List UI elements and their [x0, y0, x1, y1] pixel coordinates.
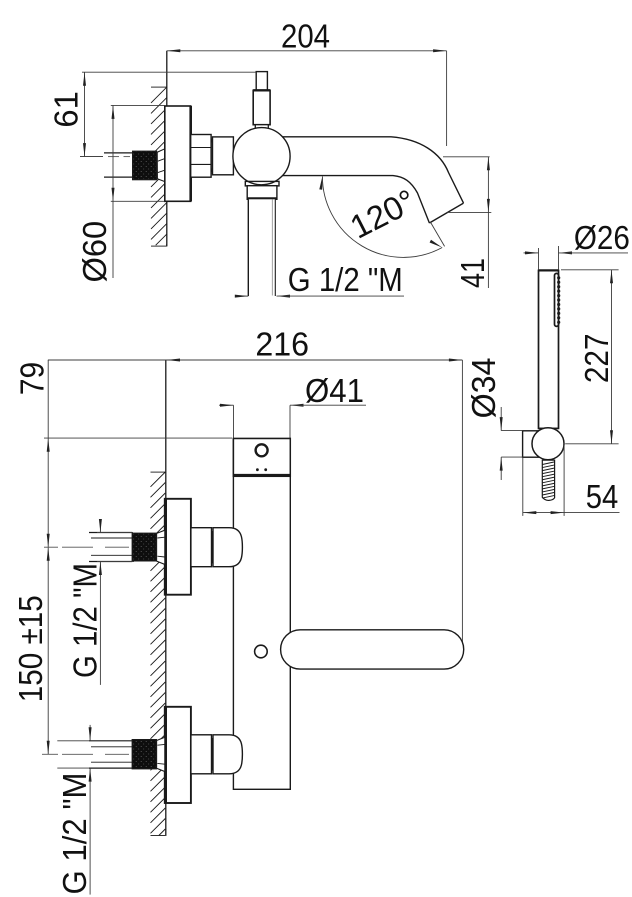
top neck thread lines: [158, 159, 165, 173]
svg-text:Ø34: Ø34: [465, 358, 502, 419]
bracket ball joint: [532, 428, 564, 460]
wall band top edge (top view): [151, 86, 167, 88]
mixer column body: [233, 439, 290, 790]
bottom outlet pipe G1/2: [248, 199, 275, 296]
dimension 41 (spout drop): [443, 156, 490, 158]
spray nozzle dots: [557, 276, 560, 279]
lower neck thread lines: [157, 744, 164, 764]
svg-text:Ø41: Ø41: [305, 372, 364, 409]
lower check-valve dome: [213, 735, 242, 774]
hex connector nut (top): [191, 135, 211, 178]
svg-text:227: 227: [578, 334, 615, 384]
hose connection thread (coil): [542, 460, 554, 500]
hand shower top cap line: [539, 269, 559, 271]
svg-text:G 1/2 "M: G 1/2 "M: [66, 563, 103, 678]
lower port centerline: [42, 753, 129, 755]
lower union flare: [157, 737, 165, 771]
upper neck thread lines: [157, 537, 164, 557]
dimension 54: [522, 458, 524, 516]
spray face strip: [555, 273, 559, 326]
svg-text:204: 204: [281, 18, 330, 55]
upper union flare: [157, 530, 165, 564]
small circle on column: [255, 645, 268, 658]
spout (wall-mounted, curved outlet): [282, 137, 464, 223]
upper check-valve dome: [213, 528, 242, 567]
flange right edge thick: [189, 106, 192, 201]
upper port centerline: [44, 546, 129, 548]
wall section hatch (front view): [151, 472, 166, 836]
temperature handle (capsule): [281, 630, 464, 669]
wall section hatch (top view): [151, 87, 167, 245]
svg-text:79: 79: [14, 362, 51, 395]
body tube left of ball: [213, 137, 234, 175]
column top cap with indicator: [233, 439, 290, 477]
label G 1/2 M (lower port): [57, 740, 89, 742]
dimension 61: [82, 71, 256, 73]
hand shower tube: [539, 270, 559, 428]
svg-text:54: 54: [586, 478, 619, 515]
lower flange (front view): [165, 707, 191, 803]
lower supply stub: [89, 740, 132, 742]
upper flange left edge thick: [164, 499, 167, 595]
dimension D26 (head): [538, 248, 540, 270]
dimension 216 (wall to handle tip): [48, 359, 463, 361]
svg-text:41: 41: [454, 258, 491, 288]
svg-text:150 ±15: 150 ±15: [12, 595, 49, 702]
lower joint line: [211, 738, 213, 771]
dimension D41 (column width): [233, 405, 235, 438]
lower flange left edge thick: [164, 707, 167, 803]
upper hex nut: [191, 528, 212, 567]
wall flange / escutcheon (top): [165, 106, 191, 201]
dimension D60 (flange): [111, 104, 165, 106]
joint washer line: [211, 138, 213, 175]
port centerline (top): [80, 156, 130, 158]
upper supply stub: [89, 532, 132, 534]
lower hex nut: [191, 735, 212, 774]
eccentric union flare (top): [157, 149, 165, 182]
supply pipe stub G1/2 (top): [104, 152, 133, 154]
wall band bottom edge (top view): [151, 245, 167, 247]
svg-text:216: 216: [255, 325, 309, 362]
knurled union nut (top): [133, 151, 157, 180]
label G 1/2 M (upper port): [97, 532, 133, 534]
collar below ball: [245, 181, 279, 186]
dimension D34 (bracket): [501, 430, 522, 432]
dimension 227 (shower length): [561, 269, 619, 271]
wall band bottom edge (front view): [151, 835, 166, 837]
svg-text:Ø60: Ø60: [76, 221, 113, 283]
wall band top edge (front view): [151, 471, 166, 473]
wall surface line (top view): [166, 51, 168, 247]
upper knurled nut: [132, 533, 156, 561]
dimension 204 (wall to spout tip): [167, 50, 447, 52]
spherical mixer body: [233, 128, 290, 185]
angle 120 deg: [322, 176, 442, 257]
upper flange (front view): [165, 499, 191, 595]
lower knurled nut: [132, 740, 156, 769]
svg-text:Ø26: Ø26: [574, 219, 630, 256]
wall surface line (front view): [165, 360, 167, 836]
dimension 79 (cap top to upper port center): [47, 360, 49, 754]
upper joint line: [211, 531, 213, 563]
lever handle (top of ball): [256, 72, 267, 91]
label G 1/2 M (top outlet): [236, 295, 248, 297]
svg-text:G 1/2 "M: G 1/2 "M: [288, 261, 403, 298]
shower bracket: [523, 431, 540, 457]
dimension 150 +-15 (port center to port center): [47, 547, 50, 561]
svg-text:G 1/2 "M: G 1/2 "M: [56, 773, 93, 895]
svg-text:61: 61: [48, 91, 85, 127]
